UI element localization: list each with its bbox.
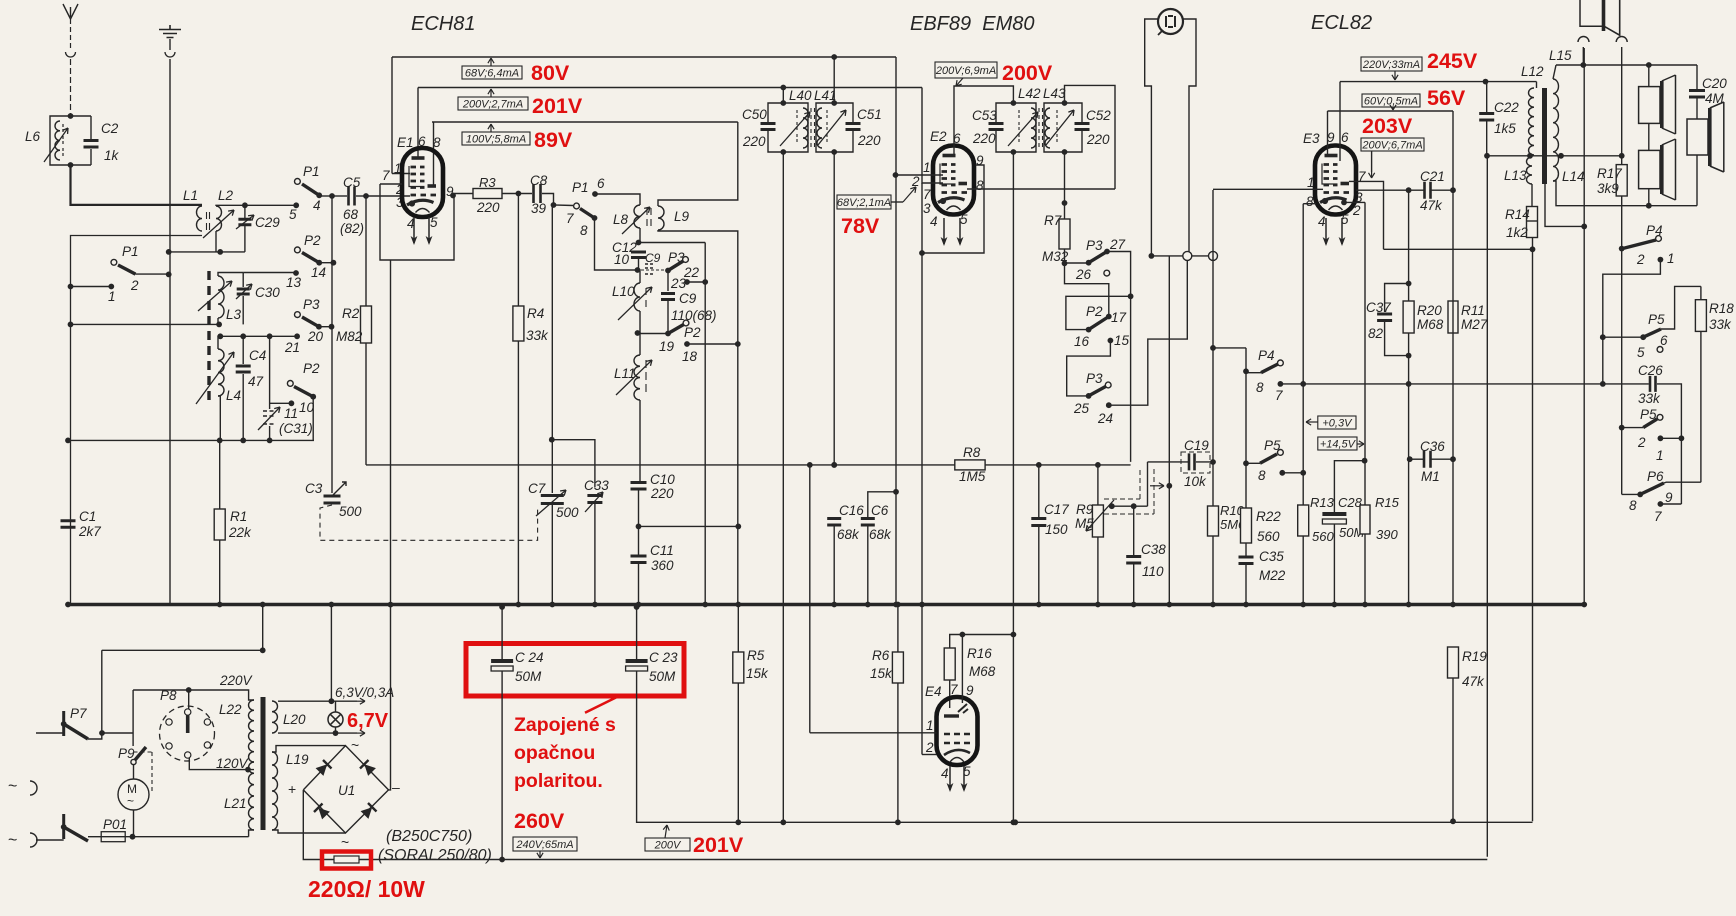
wire R9 wiper shielded line <box>1109 503 1115 509</box>
wire P2 ladder <box>1065 263 1109 315</box>
terminal 10 <box>289 400 295 406</box>
wire 16 loop <box>1066 296 1131 329</box>
svg-text:R1: R1 <box>230 509 247 524</box>
capacitor C4 <box>242 336 244 364</box>
svg-text:1k2: 1k2 <box>1506 225 1528 240</box>
wire C22 bottom to tap <box>1486 120 1488 156</box>
svg-text:220: 220 <box>857 133 881 148</box>
svg-text:~: ~ <box>351 737 359 753</box>
svg-text:10: 10 <box>299 400 315 415</box>
capacitor C20 <box>1689 91 1705 98</box>
svg-text:82: 82 <box>1368 326 1384 341</box>
svg-text:26: 26 <box>1075 267 1092 282</box>
svg-text:240V;65mA: 240V;65mA <box>515 839 573 851</box>
svg-text:21: 21 <box>284 340 300 355</box>
node antenna-L6 <box>68 113 74 119</box>
boxed label 68V 2.1mA <box>837 195 891 209</box>
wire motor top <box>133 762 135 779</box>
svg-text:200V;6,9mA: 200V;6,9mA <box>935 65 996 77</box>
wire C31 box right <box>312 397 314 441</box>
wire R16 to E4 pin7 <box>949 680 951 708</box>
svg-text:R15: R15 <box>1375 495 1400 510</box>
svg-text:P8: P8 <box>160 688 177 703</box>
capacitor C2 <box>90 116 92 139</box>
boxed label 200V <box>645 838 690 851</box>
svg-text:9: 9 <box>966 683 974 698</box>
svg-text:20: 20 <box>307 329 324 344</box>
capacitor C22 <box>1479 114 1494 121</box>
svg-text:L12: L12 <box>1521 64 1544 79</box>
resistor R22 <box>1241 508 1252 543</box>
capacitor C6 <box>861 519 875 526</box>
terminal 23 wire <box>684 279 690 285</box>
wire EM80 cathode column <box>1168 256 1170 605</box>
wire R17 column <box>1621 47 1623 165</box>
resistor R13 <box>1298 505 1309 536</box>
svg-text:P4: P4 <box>1258 348 1275 363</box>
wire L13 to R14 <box>1531 184 1533 207</box>
switch P2 17/16 <box>1089 317 1109 330</box>
capacitor C50 <box>761 124 776 130</box>
svg-text:(C31): (C31) <box>279 421 313 436</box>
svg-text:39: 39 <box>531 201 547 216</box>
switch P1 antenna <box>111 259 117 265</box>
svg-text:R20: R20 <box>1417 303 1442 318</box>
svg-text:201V: 201V <box>532 94 583 118</box>
wire det line dots <box>807 462 813 468</box>
wire bridge minus to chassis <box>389 605 391 790</box>
svg-text:C3: C3 <box>305 481 323 496</box>
wire L9 bottom down <box>658 230 738 605</box>
wire ground vertical <box>169 59 171 603</box>
trimmer C33 <box>587 496 602 503</box>
svg-text:P5: P5 <box>1648 312 1665 327</box>
svg-text:L2: L2 <box>218 188 234 203</box>
svg-text:EBF89 EM80: EBF89 EM80 <box>910 13 1035 35</box>
svg-text:R9: R9 <box>1076 502 1094 517</box>
svg-text:560: 560 <box>1312 529 1334 544</box>
svg-text:2k7: 2k7 <box>78 524 101 539</box>
wire tone line y384 <box>1280 383 1648 385</box>
svg-text:2: 2 <box>1352 203 1361 218</box>
svg-text:24: 24 <box>1097 411 1113 426</box>
svg-text:C4: C4 <box>249 348 266 363</box>
wire P1-8 to L10 node <box>595 218 638 270</box>
svg-text:7: 7 <box>1654 509 1662 524</box>
capacitor C12 <box>631 252 646 258</box>
connector plug symbols <box>1183 251 1192 260</box>
wire line2 drop to E1 anode pin6 <box>417 88 419 159</box>
svg-text:L21: L21 <box>224 796 247 811</box>
svg-text:~: ~ <box>8 832 17 849</box>
svg-text:C50: C50 <box>742 107 767 122</box>
wire column 1303 <box>1302 204 1304 505</box>
wire column 1365 <box>1364 202 1366 505</box>
svg-text:C52: C52 <box>1086 108 1111 123</box>
svg-text:P2: P2 <box>303 361 320 376</box>
boxed label 220V 33mA <box>1361 57 1422 71</box>
svg-text:C17: C17 <box>1044 502 1069 517</box>
terminal 6 to L8 <box>592 191 598 197</box>
wire P7 lower to fuse <box>88 836 101 838</box>
svg-text:1k: 1k <box>104 148 120 163</box>
svg-text:C7: C7 <box>528 481 546 496</box>
boxed label 200V 2.7mA <box>490 89 492 97</box>
wire L1 return <box>71 236 203 605</box>
svg-text:~: ~ <box>127 794 134 808</box>
wire line2 tap to L40 <box>782 88 784 104</box>
resistor R18 <box>1695 300 1706 332</box>
svg-text:200V;2,7mA: 200V;2,7mA <box>462 99 523 111</box>
svg-text:R22: R22 <box>1256 509 1281 524</box>
svg-text:1: 1 <box>1307 175 1315 190</box>
svg-text:R8: R8 <box>963 445 981 460</box>
svg-text:68V;2,1mA: 68V;2,1mA <box>837 197 891 209</box>
svg-text:8: 8 <box>580 223 588 238</box>
svg-text:8: 8 <box>976 178 984 193</box>
svg-text:R18: R18 <box>1709 301 1734 316</box>
resistor R17 <box>1616 165 1627 196</box>
svg-text:P1: P1 <box>122 244 139 259</box>
svg-text:16: 16 <box>1074 334 1090 349</box>
svg-text:68V;6,4mA: 68V;6,4mA <box>465 68 519 80</box>
L42 tank box <box>996 103 1036 152</box>
svg-text:L14: L14 <box>1562 169 1585 184</box>
wire line3 screen rail <box>432 121 738 123</box>
wire pin9 up <box>961 635 963 704</box>
ground / chassis symbol <box>159 25 181 38</box>
svg-text:68k: 68k <box>869 527 892 542</box>
diode 3 <box>318 808 330 820</box>
capacitor C35 <box>1239 557 1254 564</box>
capacitor C28 electrolytic <box>1322 512 1346 516</box>
svg-text:13: 13 <box>286 275 302 290</box>
primary winding L21 <box>248 762 254 830</box>
wire anode rail to L12 top <box>1536 82 1538 88</box>
svg-text:6: 6 <box>1341 130 1349 145</box>
svg-text:5: 5 <box>289 207 297 222</box>
capacitor C1 <box>61 521 76 528</box>
svg-text:1: 1 <box>1656 448 1664 463</box>
wire vertical 705 column <box>704 243 706 605</box>
wire P5-6 to R18 <box>1661 286 1701 329</box>
wire L8 bottom to C12 <box>639 228 641 243</box>
inductor L41 winding <box>817 108 822 148</box>
wire L2 bottom row <box>169 251 245 253</box>
ferrite rod core L3 L4 <box>207 271 210 401</box>
svg-text:78V: 78V <box>841 214 880 238</box>
svg-text:7: 7 <box>566 211 574 226</box>
svg-text:M5: M5 <box>1075 516 1094 531</box>
svg-text:4: 4 <box>941 766 949 781</box>
svg-text:6: 6 <box>1660 333 1668 348</box>
svg-text:6,3V/0,3A: 6,3V/0,3A <box>335 685 394 700</box>
wire pin3 cathode to bus <box>390 260 392 605</box>
wire L3 bottom <box>71 323 220 325</box>
trimmer C9 dashed <box>645 264 654 274</box>
wire chassis column 1584 <box>1583 48 1585 605</box>
shield ground arrow <box>1150 485 1164 487</box>
svg-text:R5: R5 <box>747 648 765 663</box>
svg-text:P2: P2 <box>304 233 321 248</box>
svg-text:200V: 200V <box>654 840 682 852</box>
wire heater chassis drop <box>330 605 332 702</box>
wire shield to E4 cathode <box>921 253 923 755</box>
svg-text:L4: L4 <box>226 388 241 403</box>
svg-text:–: – <box>392 779 400 795</box>
svg-text:2: 2 <box>1637 435 1646 450</box>
svg-text:C1: C1 <box>79 509 96 524</box>
terminal 7 wire <box>1658 501 1664 507</box>
svg-text:7: 7 <box>923 187 931 202</box>
capacitor C17 <box>1031 519 1046 526</box>
resistor R11 <box>1448 301 1458 333</box>
capacitor C5 <box>332 195 347 197</box>
svg-text:C21: C21 <box>1420 169 1445 184</box>
capacitor C38 <box>1126 557 1141 564</box>
svg-text:+14,5V: +14,5V <box>1320 439 1357 451</box>
wire column 1453 long <box>1452 111 1454 605</box>
terminal 24 wire <box>1106 402 1112 408</box>
trimmer C29 <box>244 205 246 218</box>
wire C7 node <box>549 437 555 443</box>
wire line3 drop to E1 pin8 <box>433 122 435 185</box>
svg-text:(B250C750): (B250C750) <box>386 828 472 845</box>
svg-text:P3: P3 <box>1086 371 1103 386</box>
svg-text:8: 8 <box>1306 194 1314 209</box>
wire output transformer tap line <box>1487 155 1530 157</box>
svg-text:1: 1 <box>1667 251 1675 266</box>
bridge rectifier U1 <box>303 746 388 833</box>
svg-text:560: 560 <box>1257 529 1280 544</box>
svg-text:M68: M68 <box>969 664 996 679</box>
svg-text:L8: L8 <box>613 212 629 227</box>
L40 tank box <box>768 103 808 152</box>
svg-text:E4: E4 <box>925 684 942 699</box>
wire L14 bottom row <box>1553 181 1697 206</box>
resistor R5 <box>733 652 744 683</box>
wire heater top <box>278 700 357 702</box>
svg-text:R17: R17 <box>1597 166 1622 181</box>
wire L41 bottom to C16 <box>833 152 835 465</box>
wire EM80 connector row <box>1151 255 1213 257</box>
wire anode rail 245V <box>1340 81 1537 83</box>
rectifier winding L19 <box>272 752 278 830</box>
svg-text:P01: P01 <box>103 817 127 832</box>
svg-text:33k: 33k <box>1709 317 1732 332</box>
potentiometer R9 volume <box>1092 505 1103 537</box>
svg-text:500: 500 <box>339 504 362 519</box>
tuning capacitor C3 <box>324 496 341 503</box>
svg-text:C5: C5 <box>343 175 361 190</box>
terminal 18 wire <box>684 341 690 347</box>
wire L2 top to terminal 5 <box>216 204 296 207</box>
svg-text:L10: L10 <box>612 284 635 299</box>
dashed link P9 motor <box>134 752 153 794</box>
tuning capacitor C7 <box>541 496 564 504</box>
svg-text:200V;6,7mA: 200V;6,7mA <box>1361 140 1422 152</box>
antenna <box>63 4 78 19</box>
wire L19 to bridge AC <box>272 746 346 752</box>
capacitor C36 <box>1424 451 1431 468</box>
svg-text:L43: L43 <box>1043 86 1066 101</box>
terminal 21 <box>294 333 300 339</box>
resistor R14 <box>1527 207 1538 238</box>
svg-text:L15: L15 <box>1549 48 1572 63</box>
svg-text:4: 4 <box>930 214 938 229</box>
wire antenna feed to L1 (heavy) <box>71 165 203 205</box>
svg-text:17: 17 <box>1111 310 1127 325</box>
inductor L42 winding <box>1031 108 1036 148</box>
wire L41 top to AVC line1 <box>833 57 835 103</box>
primary winding L12 <box>1528 88 1534 155</box>
shield box E1 <box>380 184 454 260</box>
svg-text:P7: P7 <box>70 706 87 721</box>
arrow to pin7 <box>1371 151 1373 172</box>
svg-text:68k: 68k <box>837 527 860 542</box>
wire 810 column to E4 grid <box>809 465 811 733</box>
svg-text:203V: 203V <box>1362 114 1413 138</box>
svg-text:L3: L3 <box>226 307 242 322</box>
wire P1-7 column to C7 <box>551 205 553 493</box>
boxed label 68V 6.4mA <box>490 58 492 66</box>
svg-text:C11: C11 <box>650 543 674 558</box>
svg-text:47k: 47k <box>1420 198 1443 213</box>
svg-text:50M: 50M <box>515 669 542 684</box>
svg-text:C20: C20 <box>1702 76 1727 91</box>
svg-text:68: 68 <box>343 207 359 222</box>
svg-text:E1: E1 <box>397 135 414 150</box>
svg-text:19: 19 <box>659 339 675 354</box>
wire speaker3 bottom <box>1696 155 1698 206</box>
svg-text:150: 150 <box>1045 522 1068 537</box>
svg-text:6,7V: 6,7V <box>347 710 389 732</box>
svg-text:1: 1 <box>108 289 116 304</box>
loudspeaker 2 <box>1639 150 1660 188</box>
capacitor C8 <box>534 184 541 203</box>
svg-text:C35: C35 <box>1259 549 1284 564</box>
svg-text:C33: C33 <box>584 478 609 493</box>
svg-text:80V: 80V <box>531 61 570 85</box>
primary winding L22 <box>248 700 254 762</box>
wire grid node to C3 <box>331 196 333 493</box>
svg-text:220: 220 <box>1086 132 1110 147</box>
svg-text:C53: C53 <box>972 108 997 123</box>
boxed label 200V 6.9mA <box>935 62 997 78</box>
terminal 1 wire <box>1658 257 1664 263</box>
wire E4 cathode pin2 <box>922 754 937 756</box>
svg-text:(82): (82) <box>340 221 364 236</box>
svg-text:8: 8 <box>433 135 441 150</box>
svg-text:C22: C22 <box>1494 100 1519 115</box>
svg-text:6: 6 <box>597 176 605 191</box>
L41 tank box <box>816 103 853 152</box>
secondary winding L14 <box>1553 79 1559 181</box>
switch P3 27/26 <box>1065 262 1089 264</box>
svg-text:L6: L6 <box>25 129 41 144</box>
red highlight box C24 C23 <box>466 644 684 697</box>
svg-text:C9: C9 <box>645 251 661 265</box>
svg-text:C9: C9 <box>679 291 697 306</box>
svg-text:M68: M68 <box>1417 317 1444 332</box>
resistor R16 <box>944 648 955 680</box>
svg-text:89V: 89V <box>534 128 573 152</box>
svg-text:10k: 10k <box>1184 474 1207 489</box>
svg-text:+0,3V: +0,3V <box>1322 418 1353 430</box>
resistor R6 <box>892 652 903 683</box>
svg-text:R11: R11 <box>1461 303 1485 318</box>
wire 220V tap <box>133 690 254 700</box>
svg-text:245V: 245V <box>1427 49 1478 73</box>
svg-text:C19: C19 <box>1184 438 1209 453</box>
resistor R20 <box>1403 301 1414 333</box>
wire AM bottom row <box>68 439 314 441</box>
wire pin1 grid line <box>1213 188 1323 190</box>
svg-text:8: 8 <box>1256 380 1264 395</box>
svg-text:33k: 33k <box>1638 391 1661 406</box>
boxed label 60V 0.5mA <box>1362 94 1420 107</box>
wire C10 bottom to column 738 <box>639 525 739 527</box>
core dashes L42L43 <box>1039 108 1043 148</box>
wire L9 top to line3 <box>658 122 738 206</box>
wire L4 top row <box>220 335 297 337</box>
svg-text:P1: P1 <box>303 164 320 179</box>
svg-text:M82: M82 <box>336 329 363 344</box>
wire R14 bottom <box>1532 238 1534 250</box>
svg-text:(SORAL250/80): (SORAL250/80) <box>378 847 492 864</box>
boxed label 100V 5.8mA <box>490 124 492 132</box>
trimmer C30 <box>242 273 244 288</box>
wire L11 to C10 <box>639 400 641 481</box>
wire line1 left drop to E1 grid <box>391 57 393 174</box>
svg-text:L1: L1 <box>183 188 198 203</box>
svg-text:220: 220 <box>972 131 996 146</box>
resistor R15 <box>1360 505 1370 534</box>
wire line2 anode rail <box>418 87 922 89</box>
switch P3 25/24 <box>1086 393 1092 399</box>
svg-text:C10: C10 <box>650 472 675 487</box>
speaker plug cups <box>1578 37 1627 43</box>
svg-text:4: 4 <box>313 198 321 213</box>
wire C8 to P1 <box>542 194 573 206</box>
wire P1 to C5 node <box>319 195 332 197</box>
speaker top edge <box>1580 0 1604 26</box>
svg-text:110: 110 <box>1142 564 1164 579</box>
svg-text:M1: M1 <box>1421 469 1440 484</box>
gang link dashed C3-C7 <box>320 505 538 540</box>
svg-text:~: ~ <box>341 834 349 850</box>
svg-text:L19: L19 <box>286 752 309 767</box>
svg-text:120V: 120V <box>216 756 250 771</box>
wire E4 grid pin1 <box>810 732 937 734</box>
svg-text:M22: M22 <box>1259 568 1286 583</box>
wire C28 branch <box>1334 461 1364 514</box>
wire bridge plus to B+ line <box>303 790 1487 860</box>
svg-text:220: 220 <box>476 200 500 215</box>
svg-text:201V: 201V <box>693 833 744 857</box>
wire screen row y249 <box>1384 248 1533 250</box>
resistor R4 <box>517 194 519 307</box>
diode 2 <box>364 764 376 776</box>
wire cathode column 1532 <box>1532 249 1534 821</box>
capacitor C52 <box>1075 124 1090 130</box>
wire line1 to E2 grid pin1 <box>893 172 899 178</box>
wire L43 top to pin8 line <box>1065 85 1116 189</box>
chassis ground bus <box>68 603 1584 606</box>
dial lamp <box>328 712 343 727</box>
wire pin9 anode out <box>450 193 456 199</box>
svg-text:11: 11 <box>284 406 298 421</box>
